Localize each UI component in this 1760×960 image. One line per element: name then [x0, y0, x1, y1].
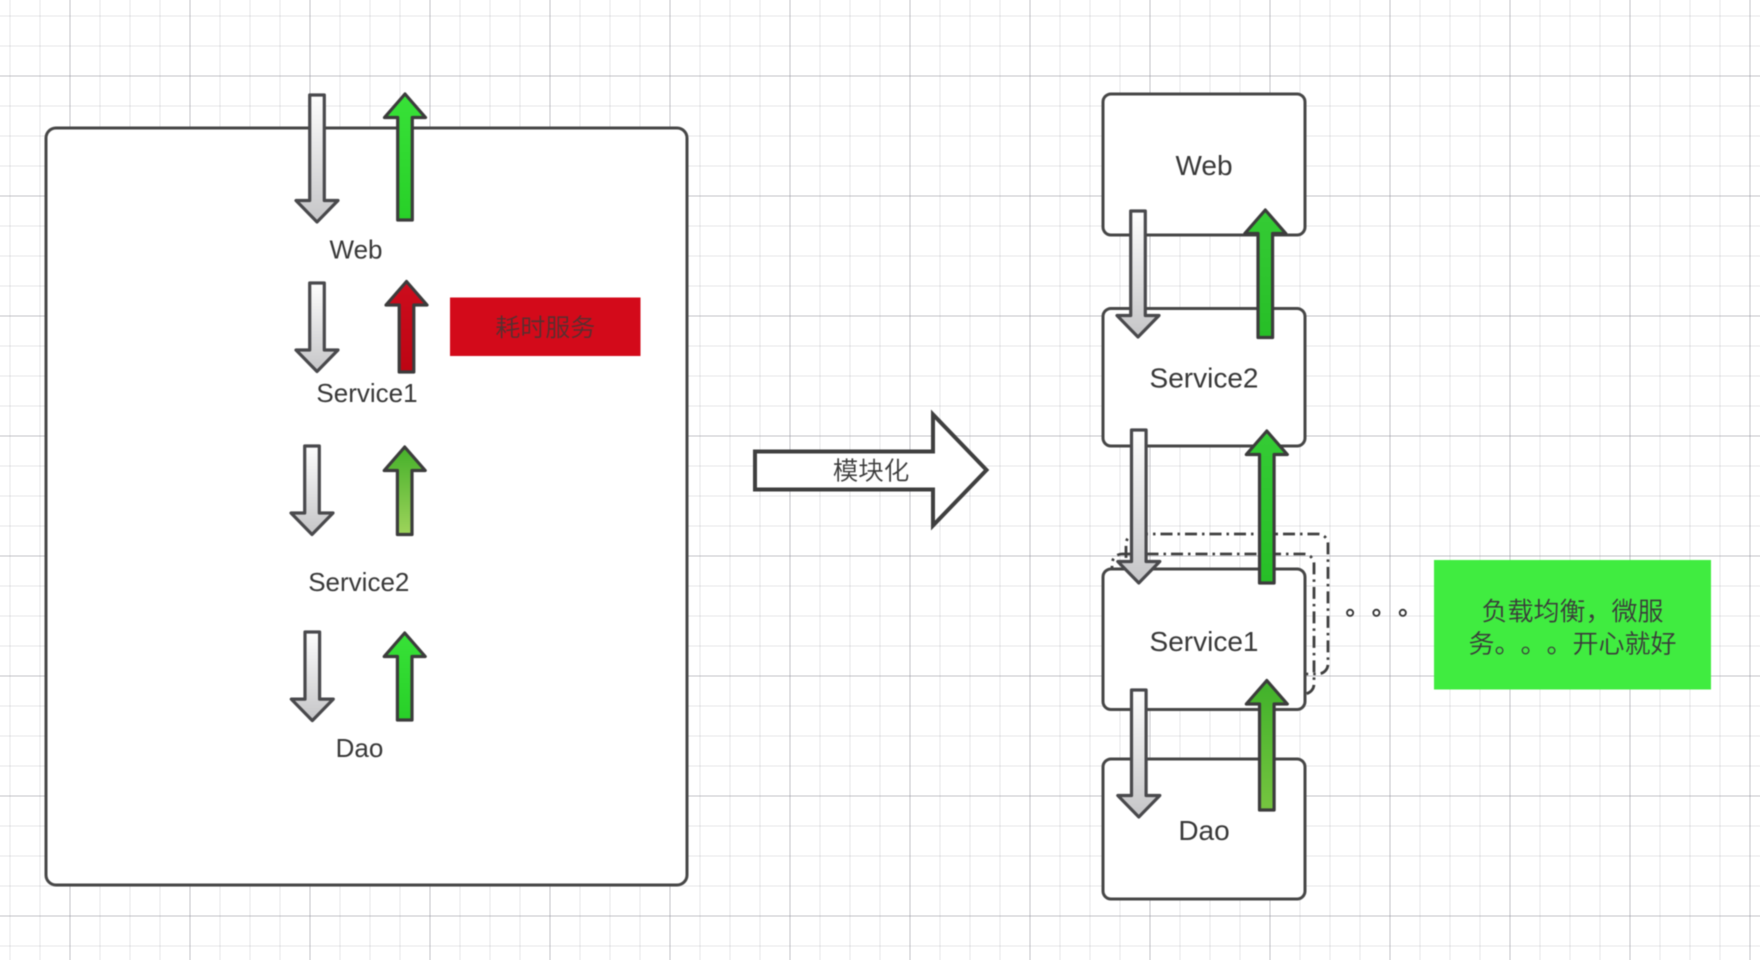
svg-text:Web: Web	[330, 235, 383, 265]
svg-text:Dao: Dao	[1178, 815, 1229, 846]
svg-text:Service1: Service1	[316, 378, 417, 408]
svg-text:Service1: Service1	[1150, 626, 1259, 657]
svg-text:Service2: Service2	[1150, 363, 1259, 394]
svg-text:Service2: Service2	[308, 567, 409, 597]
svg-text:Web: Web	[1175, 150, 1232, 181]
svg-text:Dao: Dao	[336, 733, 384, 763]
